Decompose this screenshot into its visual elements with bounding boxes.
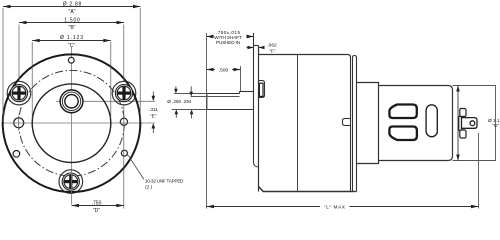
svg-text:10-32 UNF TAPPED: 10-32 UNF TAPPED (145, 179, 184, 184)
dimension B line (19, 22, 124, 24)
vent slot upper (389, 105, 416, 119)
terminal small square bottom (460, 130, 466, 138)
dimension C ext lines (31, 42, 33, 118)
screw boss ear bottom (59, 170, 83, 194)
svg-text:"E": "E" (150, 114, 157, 120)
bearing boss inner (259, 83, 263, 96)
mounting plate bottom curve (254, 163, 259, 168)
gearbox top-right corner (347, 55, 350, 58)
dim shaft arrow down-onto-top .250 (175, 86, 177, 89)
svg-text:"A": "A" (69, 9, 76, 15)
svg-text:.500: .500 (219, 67, 229, 73)
dim L max right ext (478, 133, 480, 209)
dim .500 line segments (207, 69, 216, 71)
motor can outline (379, 86, 453, 161)
svg-text:"C": "C" (68, 43, 75, 49)
far right vertical (495, 86, 497, 161)
shaft boss outer circle (60, 90, 83, 113)
dim .062 line left piece (247, 47, 254, 49)
svg-text:"F": "F" (269, 49, 276, 55)
leader 10-32 (126, 155, 144, 180)
dimension D ext line right (123, 104, 125, 209)
dim shaft arrow up .250 (175, 114, 177, 118)
svg-text:"L" MAX: "L" MAX (324, 204, 346, 210)
dim shaft arrow up .294 (191, 114, 193, 118)
terminal small square (460, 109, 466, 117)
bushing step vertical (239, 92, 241, 94)
dimension B ext lines (18, 25, 20, 83)
inner housing circle (32, 84, 111, 163)
dimension E arrows (152, 92, 154, 98)
dimension D line (72, 205, 124, 207)
terminal bracket (459, 117, 462, 131)
svg-text:Ø 1.123: Ø 1.123 (60, 35, 83, 41)
tab on gearbox right (343, 119, 351, 126)
mounting plate left edge (253, 33, 255, 163)
dim L max line (207, 206, 321, 208)
dim shaft arrow down-onto-flat .294 (190, 86, 192, 92)
motor front bell (357, 83, 379, 164)
terminal lug (462, 118, 478, 129)
screw Q2 top-right (115, 85, 132, 102)
dimension A line (3, 6, 141, 8)
hole 9 o'clock (14, 118, 24, 128)
dim motor dia line (457, 86, 459, 161)
screw Q3 bottom (62, 173, 79, 190)
svg-text:"B": "B" (69, 25, 76, 31)
mounting plate top (254, 45, 259, 47)
svg-text:"D": "D" (93, 208, 100, 214)
bolt circle dashed (19, 70, 125, 176)
shaft ext thin left bottom (172, 109, 207, 111)
svg-text:Ø .250 .294: Ø .250 .294 (167, 99, 191, 104)
vent slot lower (389, 127, 417, 141)
dim .500: ext right (240, 66, 242, 91)
vertical centerline (71, 47, 73, 205)
outer flange circle (3, 54, 141, 192)
bushing top edge (240, 91, 254, 93)
hole 3 o'clock (120, 118, 127, 125)
dim motor dia ext top (453, 85, 497, 87)
collar bottom line (351, 191, 357, 193)
gearbox left edge (258, 46, 260, 192)
motor collar (353, 56, 357, 192)
svg-text:Ø 2.88: Ø 2.88 (63, 2, 82, 8)
centerline through 9 o'clock hole (12, 122, 27, 124)
shaft centerline (56, 100, 155, 102)
bearing boss outer (259, 81, 265, 98)
screw boss ear top-right (112, 81, 136, 105)
shaft top edge (207, 93, 240, 95)
screw Q1 top-left (10, 85, 27, 102)
shaft ext thin left top (174, 93, 207, 95)
shaft flat line (191, 96, 240, 98)
gearbox right edge (350, 58, 352, 192)
centerline over bottom screw (71, 170, 73, 194)
svg-text:Ø 1.18: Ø 1.18 (488, 118, 500, 124)
dim .750 line segments (207, 36, 213, 38)
shaft bore circle (65, 95, 78, 108)
hole lower-right (121, 150, 127, 156)
dim .750 shaft pushed: ext left (206, 33, 208, 209)
screw boss ear top-left (7, 81, 31, 105)
gearbox bottom edge (259, 187, 351, 192)
svg-text:.062: .062 (267, 43, 277, 49)
centerline through 3 o'clock hole (119, 122, 129, 124)
vent capsule (426, 105, 437, 137)
svg-text:.311: .311 (149, 107, 158, 113)
svg-text:"G": "G" (492, 123, 499, 129)
dim .062 right arrow (259, 47, 264, 49)
shaft bottom edge (207, 109, 254, 111)
shaft boss mid circle (62, 92, 80, 110)
svg-text:.750: .750 (92, 201, 102, 207)
shaft tip edge (206, 94, 208, 110)
gearbox top edge (259, 54, 348, 56)
hole 9 o'clock cross tick (18, 116, 20, 131)
svg-text:(2 ): (2 ) (145, 185, 153, 191)
dimension A ext lines (2, 8, 4, 122)
dim motor dia ext bottom (453, 160, 497, 162)
svg-text:1.500: 1.500 (64, 18, 80, 24)
svg-text:PUSHED IN: PUSHED IN (216, 40, 240, 45)
hole top (68, 57, 74, 63)
gearbox seam (297, 55, 299, 192)
horizontal centerline flange (2, 122, 155, 124)
hole lower-left (13, 151, 20, 158)
dimension C line (32, 40, 111, 42)
terminal lug hole (470, 121, 475, 126)
